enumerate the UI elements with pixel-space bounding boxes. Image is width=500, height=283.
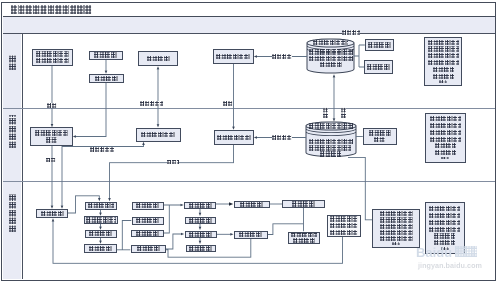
bracket 集团数据中心 to 集团报告/集团报表	[354, 45, 365, 67]
wire 二级单位数据中心 bottom to 基层单位报表	[348, 157, 372, 219]
lane label 集团	[9, 55, 16, 71]
label 抽取 vertical	[323, 107, 328, 118]
label 下发 (lane2)	[46, 158, 56, 163]
box 财务管理	[131, 245, 167, 253]
arrowhead into 二级单位细化执行 top	[51, 124, 54, 127]
wire 投资融资 to 投资分析	[105, 60, 107, 72]
label 统计分析 (lane1)	[272, 54, 292, 59]
arrowhead up into 立项管理 bottom	[52, 218, 55, 221]
arrowhead into 完工决算 left	[181, 233, 184, 236]
wire 完工投运 to 预估转资	[216, 203, 229, 205]
cylinder 二级单位数据中心	[306, 122, 356, 157]
arrowhead into 立项管理 top (下发)	[51, 206, 54, 209]
box 集团报表	[364, 60, 393, 74]
wire 完成转资 bottom loop to 财务管理	[166, 239, 251, 258]
wire 集团统一定义 down to 二级单位细化执行 (下发)	[51, 65, 53, 125]
label 穿透 vertical	[341, 107, 346, 118]
box 项目验收	[131, 230, 164, 237]
arrowhead into 二级单位管控 right	[254, 136, 257, 139]
wire 完工决算 to 项目评估	[199, 238, 201, 242]
text 数据(进度、概算、 in cylinder	[309, 56, 353, 61]
lane label 基层单位	[9, 194, 16, 232]
lane divider 2	[3, 181, 495, 182]
wire 统计分析 from 集团数据中心 to 集团监督预控	[257, 56, 308, 58]
arrowhead into 完工决算 top	[199, 227, 202, 230]
arrowhead into 项目评估 top	[199, 241, 202, 244]
arrowhead into 立项管理 top (from 报批/下达)	[61, 206, 64, 209]
box 资产卡片	[282, 200, 325, 208]
arrowhead down into 二级单位数据中心 top	[333, 118, 336, 121]
wire 集团监督预控 down to 二级单位管控 (监督)	[233, 64, 235, 128]
arrowhead into 完工结算 top	[199, 213, 202, 216]
arrowhead into 项目概算 top	[99, 213, 102, 216]
label 统计分析 (lane2)	[272, 135, 292, 140]
wire 二级单位数据中心 to 二级单位报表	[356, 136, 363, 138]
header band bottom line	[3, 33, 495, 34]
box 投资融资	[89, 51, 124, 60]
label 二级单位数据中心 on cylinder	[309, 123, 353, 129]
arrowhead into 项目WBS top (监督)	[108, 198, 111, 201]
box 查询列表(二级) 项目进度查询/项目合同查询/项目资金支付/报表穿透查询/质量分析/安全分析/……	[425, 113, 466, 163]
box 集团统一定义项目管理体系	[32, 49, 73, 66]
arrowhead up into 集团数据中心 bottom	[333, 74, 336, 77]
box 完成转资	[234, 231, 268, 239]
wire 完成转资 to EAM 设备资产管理	[268, 224, 304, 235]
label 报批/下达 (lane2)	[90, 147, 114, 152]
box 二级单位报表	[363, 128, 397, 145]
label 集团数据中心 on cylinder	[313, 40, 348, 46]
wire 投资分析 down-left to 二级单位细化执行	[75, 83, 106, 137]
box 立项管理	[36, 209, 68, 218]
box 二级单位审批	[136, 128, 181, 142]
arrowhead down into 二级单位审批 top	[157, 124, 160, 127]
label 报批/下达 (lane1)	[140, 101, 163, 106]
box 工程物资	[132, 202, 164, 210]
wire 预估转资 to 资产卡片	[270, 203, 283, 205]
lane label column divider	[22, 34, 23, 279]
text 二级单位的项目数 in cylinder	[309, 139, 353, 144]
wire 报批/下达 loop 二级单位审批-立项管理	[62, 144, 144, 206]
wire 项目概算 to 招标管理	[100, 224, 102, 227]
title 工程项目管理业务流程图	[11, 5, 92, 14]
box 预估转资	[234, 201, 270, 208]
wire 基建工程 big loop back to 立项管理	[53, 221, 343, 263]
wire 监督 loop 二级单位管控 to 项目WBS	[110, 145, 234, 199]
box 施工管理	[132, 217, 164, 225]
wire 立项管理 right loop to 项目WBS	[68, 196, 99, 213]
arrowhead into 二级单位细化执行 right	[73, 135, 76, 138]
arrowhead into 完成转资 left	[230, 233, 233, 236]
wire 资产卡片 down to EAM设备资产管理	[303, 208, 305, 231]
wire 完工决算 to 完成转资	[217, 233, 232, 235]
wire 财务管理 to 完工决算	[166, 234, 182, 249]
box 合同管理	[84, 244, 117, 253]
wire 招标管理 to 合同管理	[100, 238, 102, 242]
box 基建工程、大修，技改项目管理等	[327, 215, 361, 237]
title separator line	[3, 16, 495, 17]
box 投资分析	[89, 74, 124, 83]
text 预算……） in cylinder	[320, 151, 341, 156]
label 汇总分析	[342, 30, 361, 35]
label 下发 (lane1)	[47, 103, 57, 108]
box 二级单位管控	[214, 130, 254, 145]
arrowhead into 招标管理 top	[99, 227, 102, 230]
box 集团监督预控	[213, 49, 254, 64]
lane label column	[3, 34, 22, 279]
box 项目概算/计划	[84, 216, 118, 224]
label 监督 (lane1)	[223, 101, 233, 106]
wire 完工结算 to 完工决算	[199, 224, 201, 228]
header band	[3, 17, 495, 33]
box 招标管理	[85, 230, 117, 238]
box 集团批准	[138, 51, 178, 66]
arrowhead up into 集团批准 bottom	[157, 66, 160, 69]
arrowhead into 完工投运 left	[181, 204, 184, 207]
box 查询列表(基层) 项目进度查询/项目合同查询/项目资金支付/报表穿透查询/质量分析/安全分析/……	[425, 202, 466, 254]
wire 项目WBS to 项目概算/计划	[100, 210, 102, 214]
arrowhead into 合同管理 top	[99, 241, 102, 244]
arrowhead up into 二级单位审批 bottom	[142, 142, 145, 145]
box 查询列表(集团) 项目进度查询/项目合同查询/项目资金支付/报表穿透查询/质量分析/安全分析/……	[424, 37, 462, 87]
wire 完工投运 to 完工结算	[199, 209, 201, 214]
box 项目WBS	[85, 202, 117, 210]
cylinder 集团数据中心	[307, 39, 354, 73]
text 集团各单位的项目 in cylinder	[309, 49, 353, 54]
box 项目评估	[186, 245, 217, 252]
box 完工结算	[185, 217, 217, 224]
wire 统计分析 from 二级单位数据中心 to 二级单位管控	[257, 137, 307, 139]
text 预算……) in cylinder	[320, 62, 342, 67]
box 完工投运	[184, 202, 216, 209]
arrowhead into 二级单位管控 top	[232, 127, 235, 130]
box EAM 设备资产管理	[288, 232, 320, 245]
arrowhead into 项目WBS top (from 立项管理)	[98, 198, 101, 201]
wire 二级单位细化执行 down to 立项管理 (下发)	[51, 146, 53, 207]
wire 工程物资/项目验收 to 完工投运	[164, 205, 181, 233]
watermark Baidu logo text	[416, 245, 496, 259]
text 据（进度、概算、 in cylinder	[309, 145, 351, 150]
watermark jingyan.baidu.com	[418, 261, 482, 270]
box 完工决算	[185, 231, 217, 238]
box 集团报告	[365, 39, 394, 51]
arrowhead into 预估转资 left (big)	[229, 202, 233, 206]
box 二级单位细化执行	[30, 127, 74, 146]
arrowhead into 投资分析 top	[105, 71, 108, 74]
wire between 集团数据中心 and 二级单位数据中心 (抽取/穿透)	[333, 77, 335, 120]
wire 合同管理 to 财务管理 with branch to 施工管理	[117, 221, 132, 250]
lane label 二级单位	[9, 115, 16, 148]
lane divider 1	[3, 108, 495, 109]
arrowhead into 集团监督预控 right	[254, 55, 257, 58]
label 监督 (lane2)	[167, 160, 179, 165]
box 基层单位报表/项目形象进度/项目施工情况/项目资金支付/项目竣工决算/……	[372, 209, 420, 248]
wire 集团批准 with 二级单位审批 (报批/下达)	[157, 69, 159, 126]
